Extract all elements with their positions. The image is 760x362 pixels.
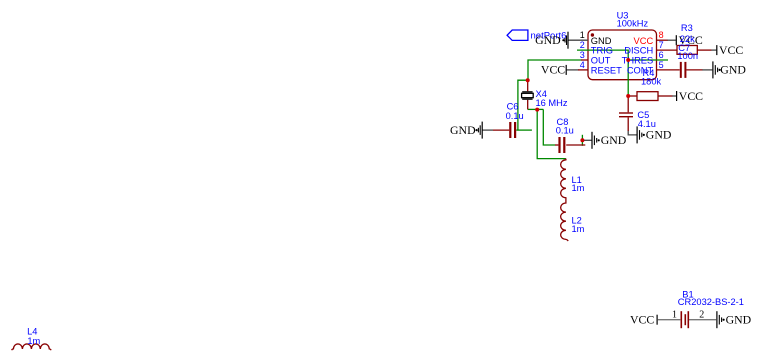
- svg-text:0.1u: 0.1u: [556, 125, 574, 135]
- svg-text:4.1u: 4.1u: [638, 119, 656, 129]
- svg-text:0.1u: 0.1u: [506, 111, 524, 121]
- svg-text:GND: GND: [601, 133, 627, 147]
- svg-text:6: 6: [659, 50, 664, 60]
- svg-text:RESET: RESET: [591, 66, 622, 76]
- svg-text:GND: GND: [535, 33, 561, 47]
- svg-text:1m: 1m: [27, 336, 40, 346]
- svg-text:TRIG: TRIG: [591, 46, 613, 56]
- svg-text:2: 2: [580, 40, 585, 50]
- svg-text:VCC: VCC: [719, 43, 743, 57]
- svg-text:VCC: VCC: [634, 36, 654, 46]
- svg-text:VCC: VCC: [630, 313, 654, 327]
- svg-text:100kHz: 100kHz: [617, 18, 649, 28]
- svg-text:VCC: VCC: [679, 89, 703, 103]
- svg-text:R3: R3: [681, 23, 693, 33]
- svg-text:4: 4: [580, 60, 585, 70]
- svg-text:GND: GND: [450, 123, 476, 137]
- svg-text:100n: 100n: [677, 51, 698, 61]
- svg-text:1m: 1m: [572, 183, 585, 193]
- svg-text:GND: GND: [720, 63, 746, 77]
- svg-text:OUT: OUT: [591, 56, 611, 66]
- svg-text:16 MHz: 16 MHz: [536, 98, 568, 108]
- svg-text:8: 8: [659, 30, 664, 40]
- svg-text:3: 3: [580, 50, 585, 60]
- svg-text:VCC: VCC: [541, 63, 565, 77]
- svg-text:L4: L4: [27, 326, 37, 336]
- svg-text:7: 7: [659, 40, 664, 50]
- svg-text:GND: GND: [646, 128, 672, 142]
- svg-text:1m: 1m: [572, 224, 585, 234]
- svg-text:GND: GND: [591, 36, 612, 46]
- svg-text:C6: C6: [507, 101, 519, 111]
- svg-text:2: 2: [699, 310, 704, 321]
- svg-text:DISCH: DISCH: [624, 46, 653, 56]
- svg-text:1: 1: [580, 30, 585, 40]
- svg-text:GND: GND: [726, 313, 752, 327]
- svg-text:1: 1: [672, 310, 677, 321]
- svg-text:CR2032-BS-2-1: CR2032-BS-2-1: [678, 297, 744, 307]
- svg-text:180k: 180k: [641, 76, 662, 86]
- svg-text:5: 5: [659, 60, 664, 70]
